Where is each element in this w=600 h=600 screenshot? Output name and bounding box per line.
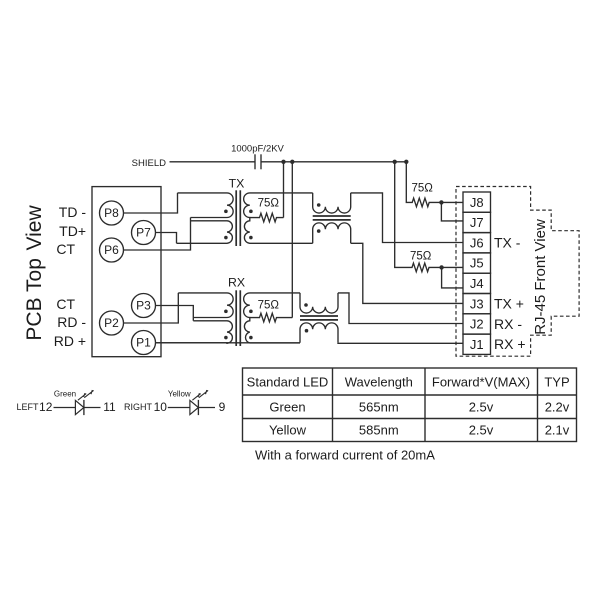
svg-text:RD +: RD + <box>54 333 86 349</box>
wire P6 to TX primary center tap <box>124 218 191 251</box>
choke L1 TX top winding <box>313 193 351 213</box>
svg-text:Wavelength: Wavelength <box>345 375 413 390</box>
pin J4 <box>463 273 491 293</box>
svg-text:75Ω: 75Ω <box>410 251 432 263</box>
svg-text:2.5v: 2.5v <box>469 400 494 415</box>
svg-text:PCB Top View: PCB Top View <box>23 205 46 341</box>
svg-text:RX: RX <box>228 275 245 289</box>
pin P6 <box>100 238 124 262</box>
wire P8 to TX primary top <box>124 193 178 213</box>
svg-text:P2: P2 <box>104 316 119 330</box>
choke L2 phase dot top <box>304 303 308 307</box>
svg-text:TX -: TX - <box>494 235 521 251</box>
choke L2 RX top winding <box>300 293 338 313</box>
pin P1 <box>132 331 156 355</box>
transformer T1 primary winding (TX left) <box>177 193 234 243</box>
svg-text:TX +: TX + <box>494 296 524 312</box>
pin header box <box>92 187 161 357</box>
junction shield-J8 resistor <box>404 160 408 164</box>
svg-text:RX -: RX - <box>494 316 522 332</box>
svg-text:Yellow: Yellow <box>168 390 191 399</box>
svg-text:J1: J1 <box>470 337 484 352</box>
RJ-45 plug dashed outline <box>456 187 579 357</box>
svg-text:RJ-45 Front View: RJ-45 Front View <box>532 219 549 335</box>
svg-text:SHIELD: SHIELD <box>132 158 166 169</box>
svg-text:12: 12 <box>39 400 53 414</box>
svg-text:75Ω: 75Ω <box>258 300 280 312</box>
transformer T2 secondary phase dots <box>249 310 253 314</box>
choke L2 RX bottom winding <box>300 323 338 343</box>
resistor 75 ohm TX termination <box>250 213 284 222</box>
transformer T2 secondary winding (RX right) <box>244 293 300 343</box>
svg-text:Forward*V(MAX): Forward*V(MAX) <box>432 375 530 390</box>
wire TX- : choke L1 top to J6 <box>351 193 463 243</box>
wire branch to J4 <box>442 267 463 288</box>
wire P1 to RX primary bottom rail <box>156 342 301 344</box>
svg-text:J6: J6 <box>470 235 484 250</box>
wire shield to TX termination resistor <box>283 162 285 218</box>
svg-text:TX: TX <box>229 177 245 191</box>
svg-text:75Ω: 75Ω <box>412 183 434 195</box>
svg-text:11: 11 <box>103 400 116 414</box>
wire RX- : choke L2 top to J2 <box>338 293 463 324</box>
transformer T1 secondary winding (TX right) <box>244 193 313 243</box>
choke L2 core <box>300 315 338 317</box>
choke L1 core <box>313 215 351 217</box>
svg-text:CT: CT <box>56 296 75 312</box>
svg-text:P8: P8 <box>104 206 119 220</box>
svg-text:2.5v: 2.5v <box>469 423 494 438</box>
wire shield to RX termination resistor <box>291 162 293 318</box>
svg-text:P3: P3 <box>136 299 151 313</box>
svg-text:1000pF/2KV: 1000pF/2KV <box>231 144 284 155</box>
svg-text:J8: J8 <box>470 195 484 210</box>
junction J5/J4 tie <box>439 265 443 269</box>
junction J8/J7 tie <box>439 200 443 204</box>
wire shield right segment <box>261 161 406 163</box>
resistor 75 ohm shield to J8 <box>406 162 463 207</box>
svg-text:Yellow: Yellow <box>269 423 307 438</box>
transformer T2 core <box>235 290 237 346</box>
wire P2 to RX primary top <box>124 293 179 323</box>
pin P3 <box>132 294 156 318</box>
LED D1 green <box>54 390 101 415</box>
LED D2 yellow <box>168 390 215 415</box>
pin J2 <box>463 314 491 334</box>
pin J7 <box>463 212 491 232</box>
transformer T1 core <box>235 190 237 246</box>
pin J3 <box>463 294 491 314</box>
svg-text:P6: P6 <box>104 243 119 257</box>
transformer T1 primary phase dots <box>224 210 228 214</box>
junction shield-J5 resistor <box>393 160 397 164</box>
svg-text:2.2v: 2.2v <box>545 400 570 415</box>
LED spec table <box>243 368 577 442</box>
pin J6 <box>463 233 491 253</box>
pin J1 <box>463 334 491 354</box>
pin P7 <box>132 221 156 245</box>
wire P3 to RX primary center tap <box>156 306 194 321</box>
wire branch to J7 <box>441 202 463 221</box>
svg-text:75Ω: 75Ω <box>258 197 280 209</box>
capacitor C1 1000pF/2KV <box>254 154 256 169</box>
svg-text:With a forward current of 20mA: With a forward current of 20mA <box>255 448 435 463</box>
svg-text:J3: J3 <box>470 296 484 311</box>
svg-text:J5: J5 <box>470 256 484 271</box>
resistor 75 ohm RX termination <box>250 313 292 322</box>
svg-text:P1: P1 <box>136 336 151 350</box>
svg-text:LEFT: LEFT <box>16 402 39 412</box>
svg-text:Green: Green <box>269 400 305 415</box>
wire TX+ : choke L1 bottom to J3 <box>351 243 463 303</box>
svg-text:RD -: RD - <box>57 314 86 330</box>
junction shield-TX tap <box>281 160 285 164</box>
pin P8 <box>100 201 124 225</box>
svg-text:565nm: 565nm <box>359 400 399 415</box>
pin P2 <box>100 311 124 335</box>
choke L2 phase dot bottom <box>305 329 309 333</box>
transformer T1 secondary phase dots <box>249 210 253 214</box>
svg-text:TD -: TD - <box>59 204 87 220</box>
svg-text:RIGHT: RIGHT <box>124 402 153 412</box>
wire RX+ : choke L2 bottom to J1 <box>338 342 463 345</box>
wire shield left segment <box>170 161 256 163</box>
choke L1 TX bottom winding <box>313 223 351 243</box>
choke L1 phase dot bottom <box>317 229 321 233</box>
svg-text:J4: J4 <box>470 276 484 291</box>
transformer T2 primary phase dots <box>224 310 228 314</box>
svg-text:10: 10 <box>154 400 168 414</box>
pin J5 <box>463 253 491 273</box>
svg-text:Standard LED: Standard LED <box>247 375 329 390</box>
svg-text:P7: P7 <box>136 226 151 240</box>
svg-text:CT: CT <box>56 241 75 257</box>
svg-text:RX +: RX + <box>494 336 526 352</box>
pin J8 <box>463 192 491 212</box>
svg-text:J7: J7 <box>470 215 484 230</box>
svg-text:TYP: TYP <box>544 375 569 390</box>
svg-text:9: 9 <box>219 400 226 414</box>
svg-text:TD+: TD+ <box>59 223 86 239</box>
wire P7 to TX primary bottom <box>156 233 177 244</box>
junction shield-RX tap <box>290 160 294 164</box>
choke L1 phase dot top <box>317 203 321 207</box>
transformer T2 primary winding (RX left) <box>156 293 234 343</box>
svg-text:585nm: 585nm <box>359 423 399 438</box>
svg-text:J2: J2 <box>470 317 484 332</box>
svg-text:2.1v: 2.1v <box>545 423 570 438</box>
resistor 75 ohm shield to J5 <box>395 162 463 272</box>
svg-text:Green: Green <box>54 390 76 399</box>
